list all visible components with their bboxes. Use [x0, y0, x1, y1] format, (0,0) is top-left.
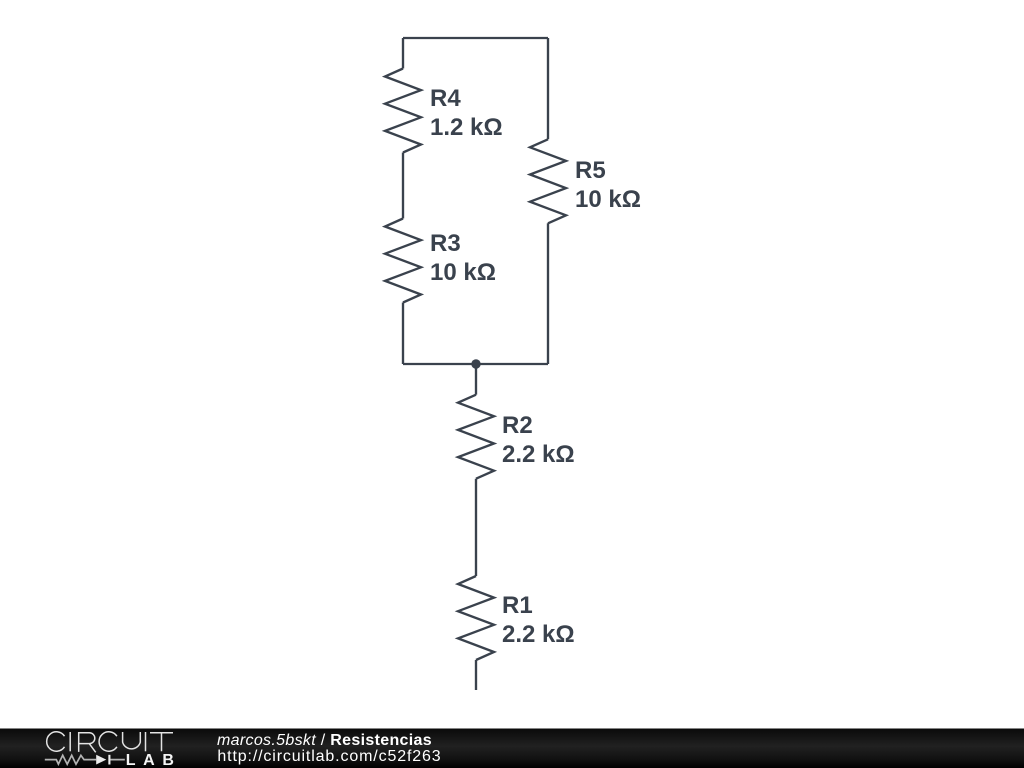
- wire right bottom lead: [547, 223, 549, 364]
- logo letter R: [79, 733, 96, 753]
- resistor R2: [458, 395, 494, 479]
- label R1: [502, 591, 575, 649]
- wire center top lead: [475, 364, 477, 395]
- logo LAB text: [126, 753, 182, 768]
- label R4: [430, 84, 503, 142]
- node junction dot: [471, 359, 480, 368]
- logo schematic resistor-diode line: [45, 755, 125, 764]
- wire left middle: [402, 153, 404, 219]
- logo letter C: [99, 732, 117, 751]
- logo CIRCUIT wordmark: [47, 732, 173, 753]
- wire left bottom lead: [402, 303, 404, 365]
- logo diode triangle: [96, 755, 106, 765]
- wire left top lead: [402, 38, 404, 69]
- resistor R1: [458, 576, 494, 660]
- logo letter U: [123, 732, 141, 749]
- footer url line: [217, 748, 441, 765]
- label R3: [430, 229, 496, 287]
- wire between R2 and R1: [475, 479, 477, 576]
- logo letter I: [145, 732, 147, 751]
- logo letter I: [69, 732, 71, 751]
- logo diode cathode bar: [108, 755, 110, 765]
- label R5: [575, 156, 641, 214]
- resistor R5: [530, 139, 566, 223]
- footer title line: marcos.5bskt / Resistencias: [217, 732, 432, 749]
- logo letter C: [47, 732, 65, 751]
- wire bottom stub: [475, 660, 477, 690]
- label R2: [502, 411, 575, 469]
- wire top bar: [403, 37, 548, 39]
- footer bar: [0, 729, 1024, 768]
- logo letter T: [150, 733, 173, 752]
- resistor R3: [385, 219, 421, 303]
- resistor R4: [385, 69, 421, 153]
- wire bottom bar: [403, 363, 548, 365]
- wire right top lead: [547, 38, 549, 139]
